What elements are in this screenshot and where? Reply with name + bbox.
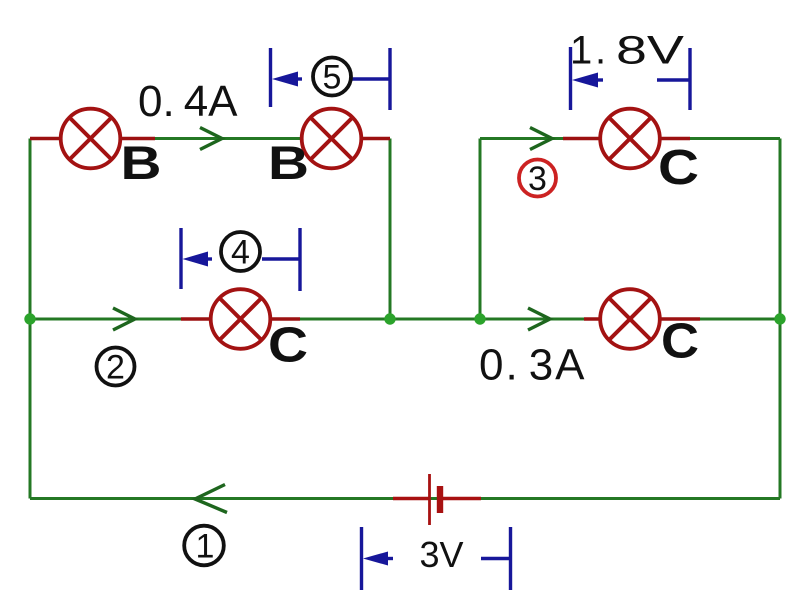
wire inner vertical at x=480 — [479, 139, 482, 320]
lamp C1 (top right) — [563, 109, 690, 169]
svg-text:C: C — [268, 319, 308, 373]
svg-text:3: 3 — [528, 160, 547, 198]
current arrow on bottom wire (pointing left) — [195, 485, 227, 513]
node marker circle 3 (red, top right loop) — [519, 160, 556, 197]
current arrow on middle wire right — [528, 308, 550, 330]
svg-text:B: B — [268, 136, 309, 189]
wire middle horizontal — [30, 318, 780, 321]
voltmeter marker 1.8V (across lamp C1) — [571, 47, 691, 110]
lamp B1 — [30, 109, 155, 169]
lamp B2 — [300, 109, 390, 169]
wire inner vertical at x=390 — [389, 139, 392, 320]
node junction left (30,319) — [24, 313, 35, 324]
lamp C2 (middle left) — [181, 289, 300, 349]
wire top-left horizontal — [30, 137, 390, 140]
node junction right (780,319) — [774, 313, 785, 324]
current arrow on top-right wire — [530, 128, 552, 150]
wire left vertical — [29, 139, 32, 499]
wire right vertical — [779, 139, 782, 499]
wire top-right horizontal — [480, 137, 780, 140]
node marker circle 1 (bottom) — [184, 526, 224, 566]
svg-text:0.3A: 0.3A — [479, 341, 587, 390]
lamp C3 (middle right) — [584, 289, 700, 349]
svg-text:4: 4 — [231, 234, 250, 272]
voltmeter marker 4 (across lamp C2) — [181, 228, 300, 291]
current arrow on top-left wire — [200, 128, 222, 150]
svg-text:5: 5 — [323, 59, 342, 97]
svg-text:C: C — [658, 141, 699, 195]
svg-text:1.8V: 1.8V — [570, 29, 684, 73]
svg-text:1: 1 — [196, 528, 215, 566]
battery BT1 — [393, 474, 481, 525]
voltmeter marker 3V (across battery) — [362, 527, 511, 590]
node marker circle 2 (middle) — [97, 348, 135, 386]
svg-text:B: B — [121, 136, 162, 189]
svg-text:C: C — [661, 315, 699, 369]
measurement point circle 5 — [313, 58, 351, 96]
svg-text:0.4A: 0.4A — [138, 77, 238, 126]
wire bottom horizontal — [30, 497, 780, 500]
svg-text:3V: 3V — [420, 534, 464, 575]
voltmeter marker 5 (across lamp B2) — [271, 48, 391, 110]
current arrow on middle wire left — [113, 308, 135, 330]
node junction at (390,319) — [384, 313, 395, 324]
node junction at (480,319) — [474, 313, 485, 324]
svg-text:2: 2 — [106, 349, 125, 387]
measurement point circle 4 — [221, 232, 260, 271]
